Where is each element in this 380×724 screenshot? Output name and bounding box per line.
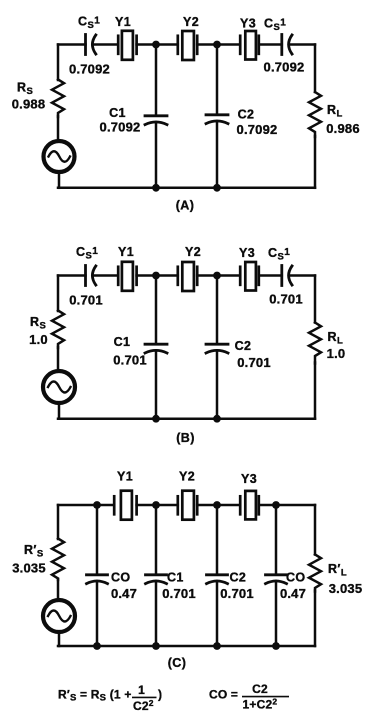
svg-text:Y1: Y1 xyxy=(118,245,134,259)
svg-text:Y2: Y2 xyxy=(183,15,199,29)
capacitor C2 (shunt) xyxy=(206,115,228,124)
svg-text:0.7092: 0.7092 xyxy=(100,120,141,135)
svg-text:Y2: Y2 xyxy=(179,470,195,484)
wire shunt branch CO-2 upper (C) xyxy=(275,505,278,575)
wire Y1 to node 1 (B) xyxy=(137,274,156,277)
resistor Rs (B) xyxy=(52,311,64,349)
node junction dot 1 (B) xyxy=(152,272,160,280)
wire top-left from left rail to Cs1 xyxy=(58,43,86,46)
wire shunt branch CO-1 lower (C) xyxy=(96,581,99,646)
wire node 2 to Y3 (B) xyxy=(217,274,240,277)
crystal Y3 xyxy=(240,31,259,60)
svg-text:Y3: Y3 xyxy=(240,17,256,31)
wire shunt branch C1 upper xyxy=(155,45,158,116)
svg-text:CO =: CO = xyxy=(209,688,238,702)
wire left rail upper (C) xyxy=(57,505,60,539)
node junction dot bottom 4 (C) xyxy=(272,642,280,650)
crystal Y2 (B) xyxy=(178,262,197,291)
svg-text:C2: C2 xyxy=(230,571,247,585)
node junction dot bottom 2 xyxy=(213,184,221,192)
capacitor C1 (shunt) (B) xyxy=(145,344,167,353)
node junction dot bottom 2 (C) xyxy=(152,642,160,650)
svg-text:0.47: 0.47 xyxy=(111,586,137,601)
svg-text:3.035: 3.035 xyxy=(329,581,363,596)
node junction dot bottom 1 (B) xyxy=(152,415,160,423)
wire right rail upper (B) xyxy=(314,276,317,323)
capacitor Cs1 (right, series) xyxy=(282,35,292,55)
svg-text:C2: C2 xyxy=(238,108,255,122)
svg-text:1.0: 1.0 xyxy=(327,346,346,361)
wire bottom rail (C) xyxy=(58,645,315,648)
capacitor C1 (shunt) xyxy=(145,116,167,125)
svg-text:(C): (C) xyxy=(168,656,187,670)
svg-text:Y3: Y3 xyxy=(241,472,257,486)
wire shunt branch C2 upper xyxy=(216,45,219,115)
wire top-left from left rail to Cs1 (B) xyxy=(58,274,86,277)
wire Cs1 right to top-right corner (B) xyxy=(289,274,315,277)
svg-text:Y3: Y3 xyxy=(239,246,255,260)
wire bottom rail xyxy=(58,187,315,190)
capacitor Cs1 (left, series) (B) xyxy=(86,266,96,286)
svg-text:0.701: 0.701 xyxy=(69,293,103,308)
crystal Y2 (C) xyxy=(178,491,197,520)
wire shunt branch CO-1 upper (C) xyxy=(96,505,99,575)
svg-text:0.988: 0.988 xyxy=(12,97,46,112)
svg-text:1.0: 1.0 xyxy=(29,332,48,347)
wire right rail lower (B) xyxy=(314,363,317,419)
wire Y1 to node 2 (C) xyxy=(137,504,178,507)
wire left rail upper (B) xyxy=(57,276,60,312)
svg-text:R′S = RS (1 +: R′S = RS (1 + xyxy=(58,688,132,704)
svg-text:1: 1 xyxy=(138,683,145,697)
svg-text:0.701: 0.701 xyxy=(220,586,254,601)
svg-text:C1: C1 xyxy=(109,106,126,120)
resistor RL (B) xyxy=(309,323,321,364)
node junction dot 2 (B) xyxy=(213,272,221,280)
svg-text:Y2: Y2 xyxy=(185,245,201,259)
svg-text:0.701: 0.701 xyxy=(269,292,303,307)
wire left rail upper xyxy=(57,45,60,81)
wire Y2 to node 2 xyxy=(197,43,217,46)
svg-text:C1: C1 xyxy=(167,571,184,585)
svg-text:Y1: Y1 xyxy=(115,15,131,29)
wire source to bottom rail xyxy=(58,173,61,188)
svg-text:0.7092: 0.7092 xyxy=(264,60,305,75)
svg-text:(B): (B) xyxy=(176,431,195,445)
wire shunt branch C1 upper (C) xyxy=(155,505,158,575)
wire shunt branch C2 lower xyxy=(216,121,219,188)
svg-text:0.7092: 0.7092 xyxy=(237,122,278,137)
svg-text:C1: C1 xyxy=(114,335,131,349)
capacitor C2 (shunt) (C) xyxy=(207,575,228,584)
crystal Y3 (C) xyxy=(240,491,259,520)
capacitor Cs1 (left, series) xyxy=(86,35,96,55)
wire Cs1 to Y1 xyxy=(93,43,119,46)
resistor Rs xyxy=(52,80,64,118)
wire shunt branch CO-2 lower (C) xyxy=(275,581,278,646)
wire shunt branch C1 lower (B) xyxy=(155,350,158,418)
svg-text:3.035: 3.035 xyxy=(12,561,46,576)
node junction dot bottom 1 (C) xyxy=(93,642,101,650)
wire shunt branch C2 upper (B) xyxy=(216,276,219,345)
wire top-left to Y1 (C) xyxy=(58,504,114,507)
wire shunt branch C2 upper (C) xyxy=(216,505,219,575)
source V1 (AC generator) (B) xyxy=(43,371,75,403)
svg-text:CO: CO xyxy=(286,571,306,585)
source V1 (AC generator) xyxy=(44,141,75,172)
crystal Y2 xyxy=(178,31,197,60)
svg-text:0.986: 0.986 xyxy=(326,121,360,136)
node junction dot bottom 1 xyxy=(152,184,160,192)
source V1 (AC generator) (C) xyxy=(43,600,75,632)
wire Rs to source (B) xyxy=(57,347,60,371)
node junction dot top 4 (C) xyxy=(272,501,280,509)
wire right rail upper xyxy=(314,45,317,93)
svg-text:CO: CO xyxy=(111,571,131,585)
node junction dot top 3 (C) xyxy=(213,501,221,509)
resistor R's (C) xyxy=(52,539,64,581)
wire right rail lower xyxy=(314,136,317,188)
wire Y2 to node 2 (B) xyxy=(197,274,217,277)
node junction dot 1 xyxy=(152,41,160,49)
svg-text:0.701: 0.701 xyxy=(237,355,271,370)
resistor R'L (C) xyxy=(309,555,321,592)
svg-text:0.701: 0.701 xyxy=(113,353,147,368)
node junction dot top 1 (C) xyxy=(93,501,101,509)
svg-text:0.47: 0.47 xyxy=(280,586,306,601)
svg-text:Y1: Y1 xyxy=(117,470,133,484)
wire Y3 to top-right corner (C) xyxy=(259,504,315,507)
svg-text:0.701: 0.701 xyxy=(162,586,196,601)
wire bottom rail (B) xyxy=(58,417,315,420)
wire R's to source (C) xyxy=(57,579,60,600)
wire right rail upper (C) xyxy=(314,505,317,555)
svg-text:C2: C2 xyxy=(235,339,252,353)
wire Cs1 to Y1 (B) xyxy=(93,274,119,277)
wire node 2 to Y3 xyxy=(217,43,240,46)
wire source to bottom rail (C) xyxy=(58,633,61,647)
wire right rail lower (C) xyxy=(314,591,317,647)
wire shunt branch C2 lower (C) xyxy=(216,581,219,646)
wire shunt branch C1 lower xyxy=(155,122,158,188)
crystal Y1 (B) xyxy=(118,262,136,291)
wire shunt branch C1 lower (C) xyxy=(155,581,158,646)
capacitor C2 (shunt) (B) xyxy=(206,344,228,353)
svg-text:0.7092: 0.7092 xyxy=(69,62,110,77)
node junction dot top 2 (C) xyxy=(152,501,160,509)
wire node 1 to Y2 (B) xyxy=(156,274,178,277)
wire Cs1 right to top-right corner xyxy=(289,43,315,46)
node junction dot 2 xyxy=(213,41,221,49)
svg-text:C2: C2 xyxy=(252,682,268,696)
wire Y1 to node 1 xyxy=(137,43,156,46)
wire shunt branch C2 lower (B) xyxy=(216,350,219,418)
capacitor C1 (shunt) (C) xyxy=(146,575,167,584)
capacitor CO left (shunt) (C) xyxy=(87,575,108,584)
wire source to bottom rail (B) xyxy=(58,404,61,419)
wire Rs to source xyxy=(57,116,60,140)
capacitor Cs1 (right, series) (B) xyxy=(282,266,292,286)
wire node 1 to Y2 xyxy=(156,43,178,46)
node junction dot bottom 2 (B) xyxy=(213,415,221,423)
capacitor CO right (shunt) (C) xyxy=(266,575,287,584)
svg-text:1+C22: 1+C22 xyxy=(243,697,278,712)
resistor RL xyxy=(309,92,321,137)
crystal Y1 xyxy=(118,31,136,60)
wire Y3 to Cs1 right (B) xyxy=(259,274,282,277)
crystal Y3 (B) xyxy=(240,262,259,291)
wire Y2 to node 3 (C) xyxy=(197,504,240,507)
wire Y3 to Cs1 right xyxy=(259,43,282,46)
wire shunt branch C1 upper (B) xyxy=(155,276,158,345)
svg-text:(A): (A) xyxy=(176,199,195,213)
node junction dot bottom 3 (C) xyxy=(213,642,221,650)
crystal Y1 (C) xyxy=(114,491,136,520)
svg-text:): ) xyxy=(158,688,162,702)
